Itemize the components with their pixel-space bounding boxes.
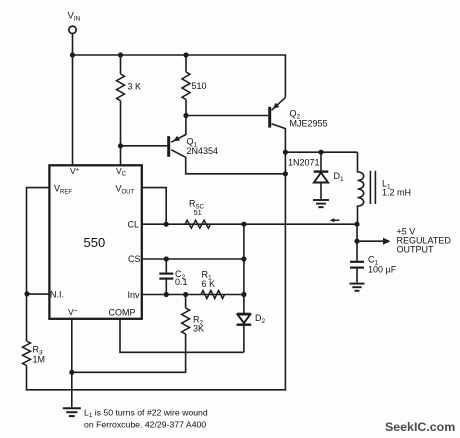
svg-text:1N2071: 1N2071 bbox=[288, 158, 320, 168]
svg-text:2N4354: 2N4354 bbox=[187, 146, 219, 156]
svg-text:510: 510 bbox=[192, 81, 207, 91]
svg-text:on Ferroxcube. 42/29-377 A400: on Ferroxcube. 42/29-377 A400 bbox=[84, 420, 206, 430]
svg-text:CS: CS bbox=[128, 254, 141, 264]
svg-text:51: 51 bbox=[194, 208, 202, 217]
svg-text:COMP: COMP bbox=[109, 308, 136, 318]
svg-text:3 K: 3 K bbox=[128, 82, 142, 92]
svg-text:3K: 3K bbox=[193, 324, 204, 334]
svg-text:CL: CL bbox=[128, 220, 140, 230]
svg-text:N.I.: N.I. bbox=[50, 290, 64, 300]
svg-text:SeekIC.com: SeekIC.com bbox=[385, 420, 455, 434]
svg-text:OUTPUT: OUTPUT bbox=[397, 245, 435, 255]
svg-text:1M: 1M bbox=[33, 355, 46, 365]
svg-text:MJE2955: MJE2955 bbox=[290, 119, 328, 129]
svg-text:550: 550 bbox=[84, 235, 106, 250]
svg-text:0.1: 0.1 bbox=[175, 277, 188, 287]
svg-text:100 µF: 100 µF bbox=[368, 265, 397, 275]
svg-text:L1 is 50 turns of #22 wire wou: L1 is 50 turns of #22 wire wound bbox=[84, 408, 208, 420]
svg-text:Inv: Inv bbox=[128, 290, 141, 300]
svg-text:6 K: 6 K bbox=[202, 279, 216, 289]
svg-text:1.2 mH: 1.2 mH bbox=[382, 188, 411, 198]
